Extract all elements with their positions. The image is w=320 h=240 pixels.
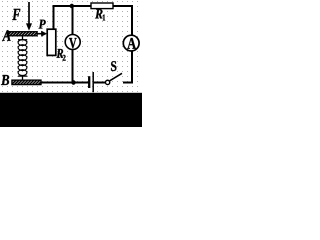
- label S: [111, 61, 116, 71]
- node bottom junction: [71, 80, 75, 84]
- bar A (platform): [7, 32, 37, 36]
- switch S lever: [110, 73, 122, 81]
- spring bottom stem: [18, 76, 27, 80]
- force F arrow: [28, 2, 30, 24]
- ammeter A: [123, 35, 139, 51]
- bar B (base plate): [12, 80, 41, 85]
- label R1: [95, 9, 102, 18]
- wire: battery to switch pivot: [94, 82, 105, 84]
- rheostat R2 box: [47, 29, 56, 55]
- wire: top rail from rheostat top to right corner: [54, 6, 133, 35]
- wire: bottom rail from bar B to battery: [42, 82, 89, 84]
- resistor R1: [91, 3, 113, 9]
- battery negative plate (short): [88, 76, 90, 88]
- background: [0, 0, 142, 127]
- wire: ammeter bottom to switch fixed contact: [123, 52, 132, 83]
- ground base: [0, 93, 142, 127]
- slider P arrow: [37, 33, 43, 35]
- switch S pivot: [105, 80, 109, 84]
- spring top stem: [18, 36, 27, 40]
- node top junction: [70, 4, 74, 8]
- wire: voltmeter branch lower: [72, 49, 74, 83]
- label A: [2, 30, 11, 41]
- wire: voltmeter branch upper: [72, 6, 74, 35]
- label R2: [57, 49, 64, 58]
- label P: [39, 20, 46, 29]
- voltmeter V: [65, 35, 80, 50]
- spring coil: [18, 40, 27, 76]
- label B: [1, 75, 9, 85]
- battery positive plate (long): [92, 72, 94, 92]
- label F: [12, 9, 20, 20]
